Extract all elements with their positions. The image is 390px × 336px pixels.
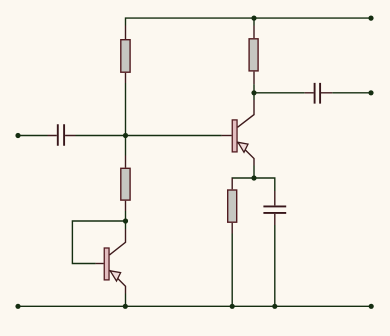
- resistor R4: [228, 178, 237, 234]
- node base junction: [123, 133, 128, 138]
- Q2 emitter arrow (PNP): [238, 142, 248, 152]
- Q1 emitter arrow (PNP): [110, 271, 120, 281]
- Q2 base pin: [222, 135, 232, 137]
- wire node B to Q1 collector: [125, 221, 127, 229]
- wire input to C1: [18, 135, 48, 137]
- node input terminal: [15, 133, 20, 138]
- wire R3 to collector node: [253, 84, 255, 93]
- transistor Q2: [222, 100, 254, 166]
- node bottom left terminal: [15, 304, 20, 309]
- resistor R2: [121, 156, 130, 212]
- wire C1 to base node: [76, 135, 126, 137]
- Q1 collector pin: [110, 229, 126, 255]
- resistor R3: [249, 26, 258, 85]
- capacitor C3: [263, 191, 286, 225]
- wire collector node down to Q2: [253, 93, 255, 100]
- wire Q2 emitter to node E: [253, 166, 255, 179]
- wire R2 to node B: [125, 211, 127, 221]
- Q1 base pin: [96, 263, 104, 265]
- Q1 emitter pin: [110, 270, 126, 293]
- Q2 emitter pin: [238, 142, 255, 165]
- resistor R1: [121, 26, 130, 84]
- wire feedback loop node B to Q1 base: [72, 221, 125, 264]
- node B feedback junction: [123, 218, 128, 223]
- Q1 base bar: [104, 248, 109, 280]
- wire base node down to R2: [125, 136, 127, 156]
- wire C2 to output: [332, 92, 371, 94]
- node top right terminal: [368, 16, 373, 21]
- node output terminal: [368, 90, 373, 95]
- wire C3 to ground rail: [274, 225, 276, 306]
- node collector junction: [251, 90, 256, 95]
- Q2 base bar: [232, 120, 237, 152]
- node E emitter junction: [251, 175, 256, 180]
- wire node E to R4 top: [232, 178, 254, 179]
- wire R1 to base node: [125, 83, 127, 136]
- node Q1 emitter ground junction: [123, 304, 128, 309]
- Q2 collector pin: [238, 100, 255, 127]
- wire top rail to R3: [253, 18, 255, 25]
- wire Q1 emitter to ground rail: [125, 294, 127, 307]
- transistor Q1: [96, 229, 126, 294]
- wire bottom ground rail: [18, 305, 371, 307]
- node C3 ground junction: [272, 304, 277, 309]
- capacitor C2: [305, 83, 333, 104]
- node bottom right terminal: [369, 304, 374, 309]
- wire top supply rail: [126, 18, 372, 25]
- capacitor C1: [48, 124, 76, 146]
- wire node E to C3 top: [254, 178, 275, 191]
- node top rail junction: [251, 16, 256, 21]
- wire collector node to C2: [254, 92, 305, 94]
- wire base node to Q2 base: [126, 135, 222, 137]
- node R4 ground junction: [230, 304, 235, 309]
- wire R4 to ground rail: [231, 234, 233, 307]
